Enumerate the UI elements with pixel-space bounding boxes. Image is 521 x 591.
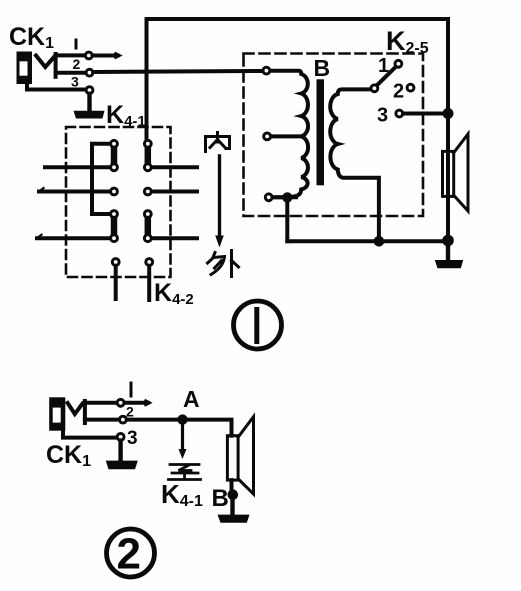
transformer secondary winding [330, 89, 379, 241]
label 至 (to) [169, 465, 201, 480]
arrow 内 to 外 [215, 156, 224, 248]
svg-text:K4-2: K4-2 [154, 279, 194, 308]
transformer primary winding [271, 71, 309, 198]
speaker LS2 horn [238, 417, 253, 494]
wire: terminal 2 to transformer primary top [93, 71, 262, 72]
switch K2-5 arm [377, 67, 395, 85]
wire: terminal 3 to ground [87, 94, 91, 111]
contact R6 [146, 259, 153, 266]
jack terminal 2' [120, 416, 127, 423]
ground (under jack CK1) [74, 111, 105, 119]
wire: mid terminal to primary winding [271, 134, 302, 138]
jack CK1' tip spring contact [68, 403, 83, 414]
contact L6 [112, 259, 119, 266]
jack CK1 plug body [17, 52, 33, 85]
svg-text:3: 3 [71, 74, 79, 90]
wire: jack contact bar to terminal 2 [56, 71, 86, 75]
wire: terminal 1' stub [125, 401, 151, 406]
jack terminal 1' [117, 399, 124, 406]
wire: arrow from A to K4-1 [179, 420, 187, 459]
switch K4-1 link bar L4-L5 [111, 214, 118, 238]
svg-text:2: 2 [117, 530, 141, 579]
svg-text:2: 2 [126, 404, 134, 420]
dashed box transformer/K2-5 [244, 54, 424, 217]
jack terminal 3' [117, 434, 124, 441]
svg-text:3: 3 [377, 105, 388, 127]
switch K2-5 contact 3 [396, 110, 403, 117]
contact L1 [111, 140, 118, 147]
jack terminal 1 [85, 52, 92, 59]
svg-text:3: 3 [127, 428, 138, 449]
wire: node B to ground [230, 495, 234, 516]
wire: K4-1 internal strap L1 to L4 [92, 144, 110, 214]
wire: sleeve to terminal 3' [63, 430, 116, 438]
svg-text:CK1: CK1 [46, 441, 91, 470]
svg-text:B: B [212, 485, 229, 512]
junction: primary bottom [282, 192, 292, 202]
svg-text:2: 2 [393, 81, 404, 103]
wire: right lead row2 [152, 165, 197, 169]
transformer core [317, 79, 325, 185]
switch K4-1 link bar L1-L2 [111, 144, 118, 168]
wire: K4-2 stub left [114, 266, 118, 299]
jack CK1 tip spring contact [36, 56, 55, 68]
jack terminal 2 [86, 69, 93, 76]
wire: speaker drop [446, 114, 450, 241]
speaker LS1 frame [443, 151, 454, 196]
wire: bar to terminal 1' [85, 401, 117, 405]
node B [228, 489, 239, 500]
contact R2 [144, 164, 151, 171]
svg-text:1: 1 [378, 55, 389, 77]
jack CK1' plug body [49, 397, 65, 430]
svg-text:K4-1: K4-1 [106, 101, 146, 130]
wire: terminal 2' to speaker [127, 420, 232, 436]
contact L2 [111, 164, 118, 171]
wire: primary bottom terminal link [273, 195, 297, 199]
transformer primary terminal 3 (bottom) [265, 194, 272, 201]
svg-text:CK1: CK1 [9, 23, 54, 52]
junction: contact3/top bus [443, 108, 454, 119]
jack CK1 break contact bar [54, 54, 58, 77]
pin label 1 (jack CK1) [75, 40, 78, 48]
transformer primary terminal 1 (top) [263, 67, 270, 74]
label 外 (outer) [208, 251, 239, 277]
svg-text:A: A [183, 386, 200, 412]
wire: left lead row3 [39, 188, 110, 192]
svg-text:K2-5: K2-5 [386, 26, 429, 57]
wire: speaker LS2 to node B [230, 480, 234, 494]
speaker LS1 horn [454, 134, 468, 211]
label 内 (inner) [206, 133, 230, 152]
ground (under speaker LS2) [218, 515, 250, 523]
wire: right lead row5 [152, 236, 197, 240]
dashed box K4-1 [66, 127, 171, 277]
junction: secondary bottom on bus [374, 236, 385, 247]
wire: left lead row5 [37, 235, 110, 239]
contact L3 [111, 188, 118, 195]
wire: left lead row2 [45, 165, 110, 169]
wire: K4-2 stub right [147, 266, 151, 300]
switch K4-1 link bar R4-R5 [145, 214, 152, 238]
jack CK1' break contact bar [83, 401, 87, 423]
wire: primary bottom down to bottom bus [285, 198, 289, 242]
node A [177, 414, 187, 424]
speaker LS2 frame [227, 436, 238, 480]
contact L4 [111, 211, 118, 218]
wire: bottom bus [287, 239, 448, 243]
contact R5 [144, 235, 151, 242]
jack terminal 3 [86, 87, 93, 94]
contact R4 [144, 211, 151, 218]
wire: terminal 3' to ground [118, 441, 122, 461]
symbol circled 1 [234, 301, 282, 349]
switch K4-1 link bar R1-R2 [145, 144, 152, 168]
switch K2-5 pivot [371, 85, 378, 92]
ground (under jack CK1') [106, 461, 138, 470]
wire: top bus from K4-1 to speaker [147, 19, 449, 140]
contact L5 [111, 235, 118, 242]
switch K2-5 contact 2 [407, 84, 414, 91]
svg-text:2: 2 [73, 56, 81, 72]
contact R3 [144, 188, 151, 195]
ground (under speaker LS1) [435, 260, 463, 268]
wire: bar to terminal 2' [85, 418, 119, 422]
transformer primary terminal 2 (mid) [264, 133, 271, 140]
switch K2-5 contact 1 [395, 60, 402, 67]
svg-text:K4-1: K4-1 [161, 479, 203, 510]
wire: contact 3 to speaker bus [403, 112, 448, 116]
wire: terminal 1 stub [93, 53, 121, 58]
wire: jack sleeve to terminal 3 [27, 84, 85, 90]
contact R1 [144, 140, 151, 147]
junction: speaker bottom [442, 235, 454, 247]
wire: right lead row3 [152, 190, 197, 194]
pin label 1 (jack CK1') [130, 383, 133, 396]
svg-text:B: B [314, 55, 331, 81]
wire: speaker to ground [446, 240, 450, 261]
wire: jack contact bar to terminal 1 [56, 53, 85, 57]
symbol circled 2 [107, 529, 155, 579]
